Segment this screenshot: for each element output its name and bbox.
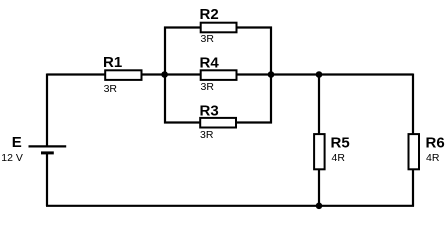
svg-text:R6: R6 — [426, 135, 445, 152]
svg-text:12 V: 12 V — [1, 152, 23, 164]
svg-text:E: E — [12, 134, 22, 151]
svg-text:3R: 3R — [104, 83, 118, 95]
svg-text:R4: R4 — [200, 55, 220, 72]
svg-text:3R: 3R — [200, 129, 214, 141]
svg-text:R5: R5 — [331, 135, 350, 152]
svg-text:3R: 3R — [201, 81, 215, 93]
svg-text:4R: 4R — [426, 152, 440, 164]
svg-text:R3: R3 — [200, 102, 219, 119]
svg-text:4R: 4R — [332, 152, 346, 164]
svg-text:R1: R1 — [103, 54, 122, 71]
svg-text:3R: 3R — [201, 33, 215, 45]
svg-text:R2: R2 — [200, 6, 219, 23]
